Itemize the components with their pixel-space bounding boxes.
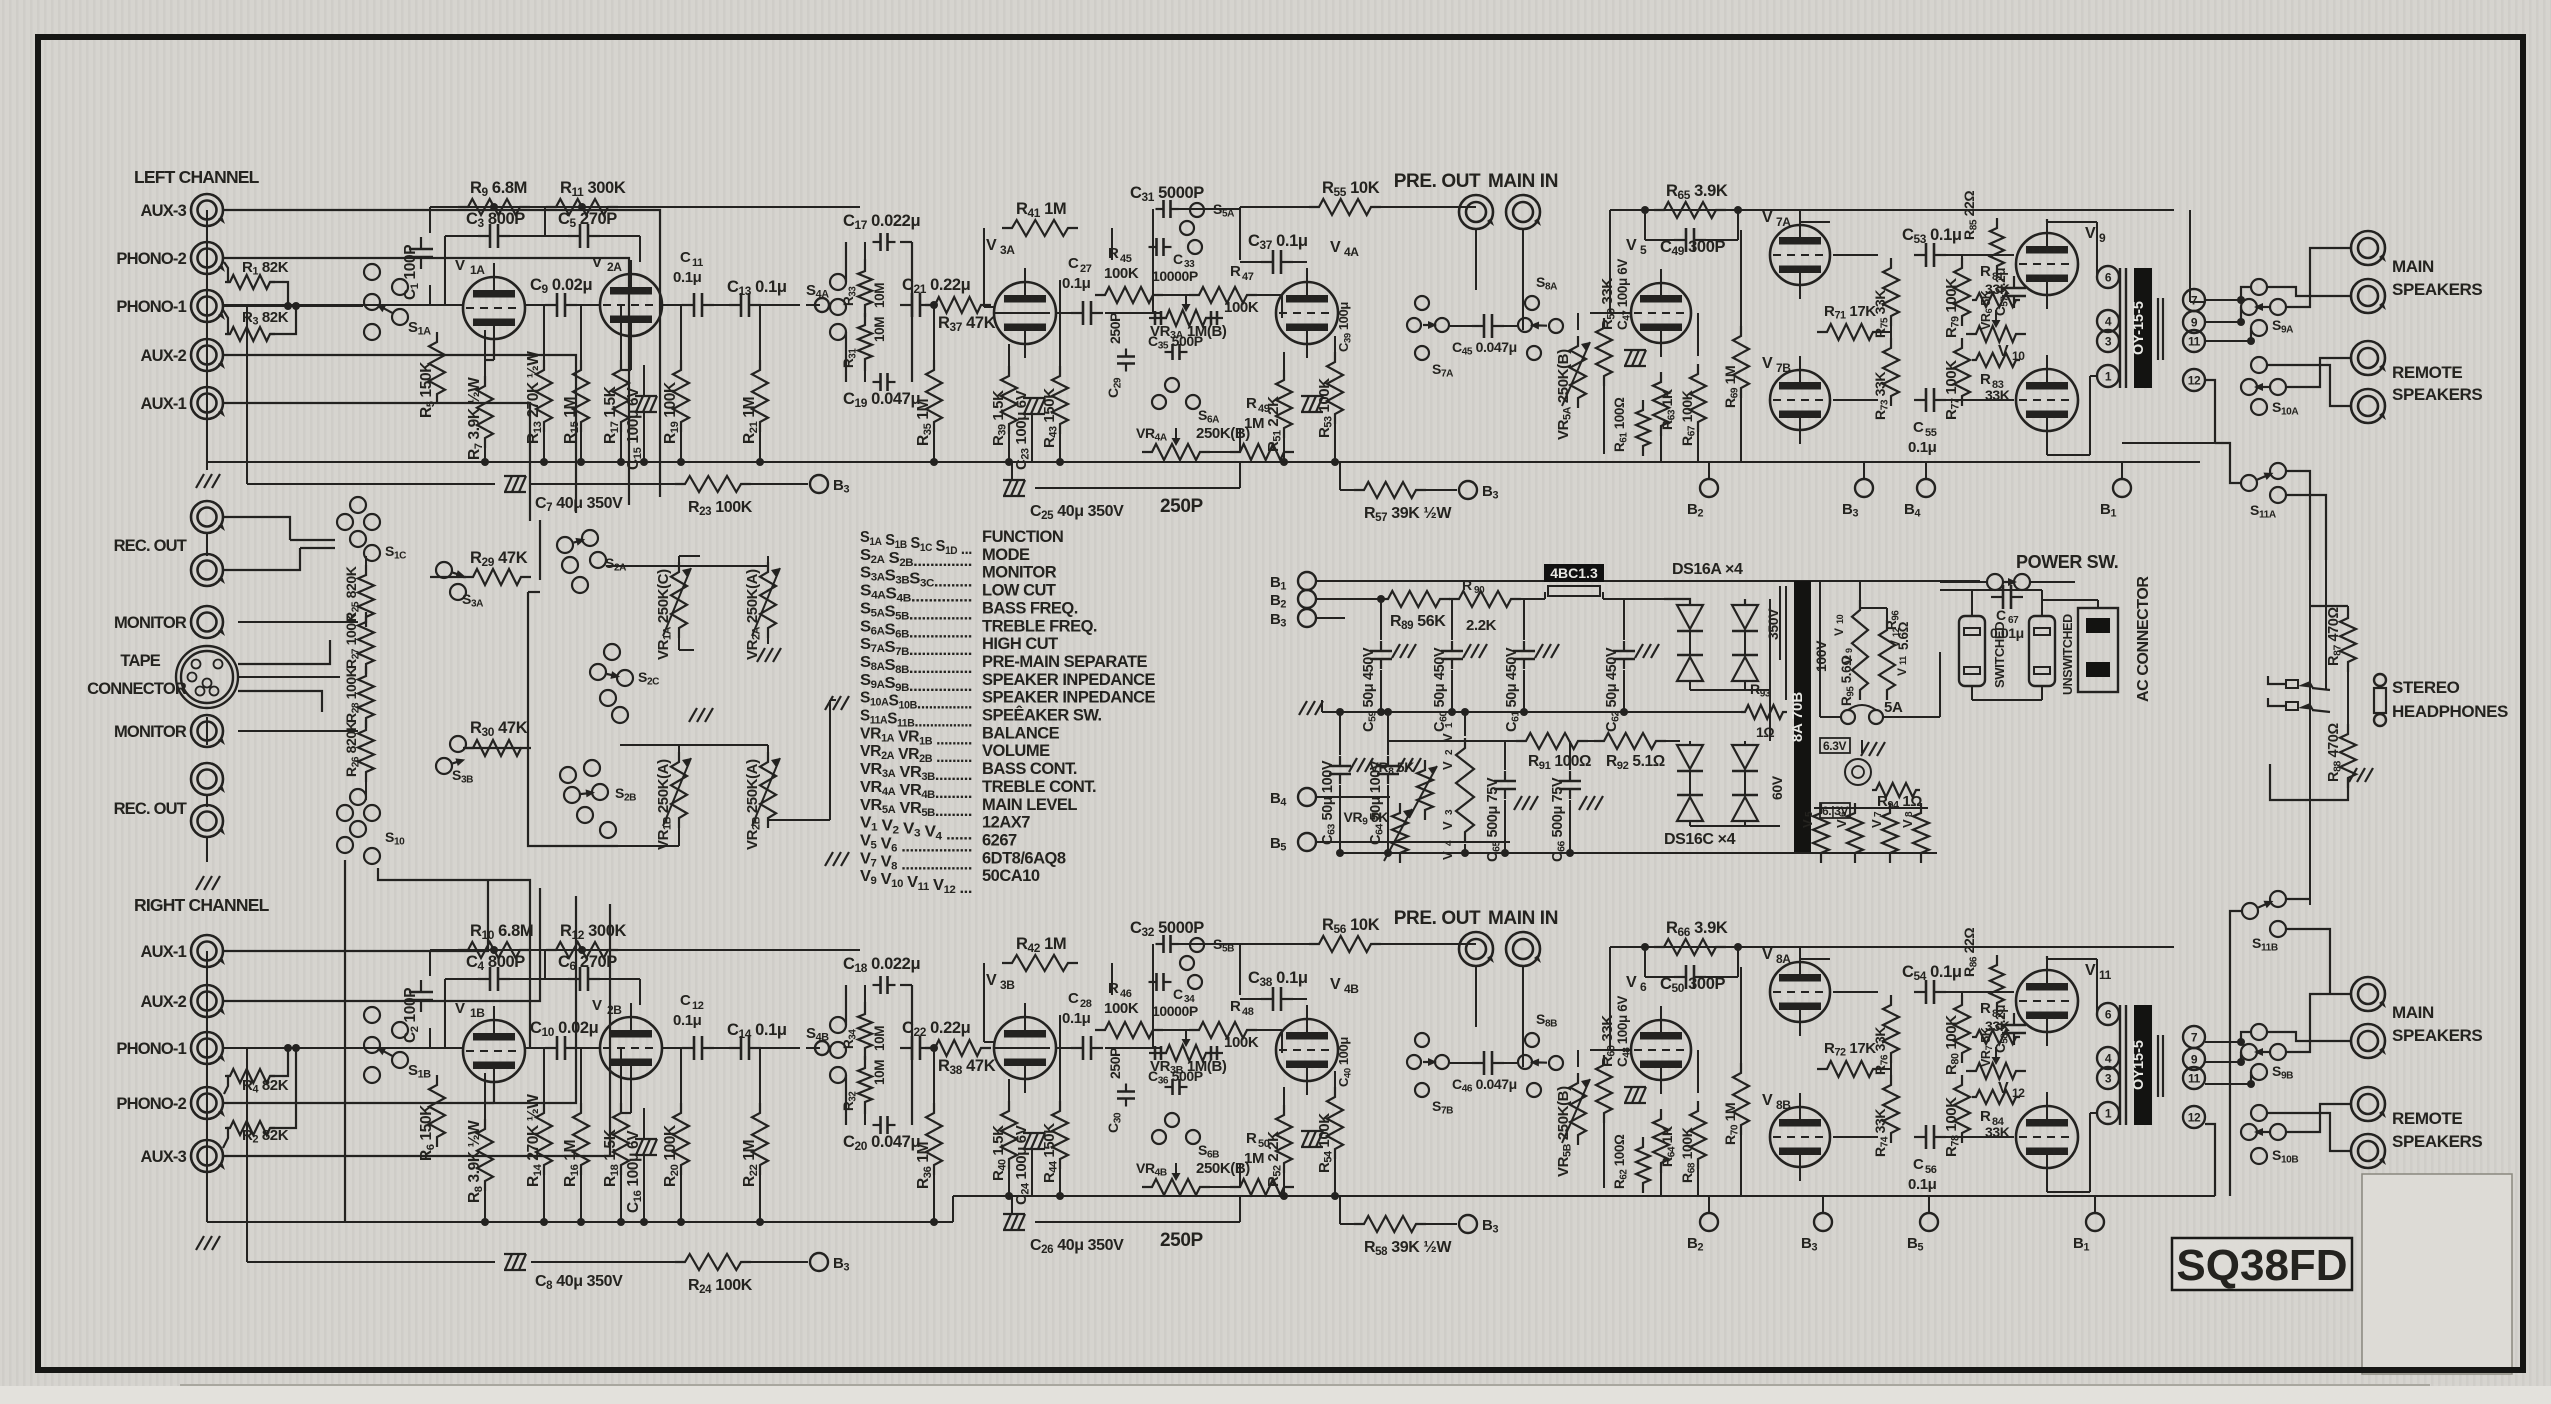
svg-text:100K: 100K [1224, 1034, 1259, 1051]
svg-text:R10 6.8M: R10 6.8M [470, 922, 533, 942]
svg-text:R6 150K: R6 150K [418, 1104, 437, 1161]
svg-text:R15 1M: R15 1M [562, 397, 581, 444]
svg-text:C3 800P: C3 800P [466, 210, 525, 230]
svg-text:C37 0.1μ: C37 0.1μ [1248, 232, 1308, 252]
svg-text:VR1B 250K(A): VR1B 250K(A) [655, 759, 674, 850]
svg-text:R: R [1108, 980, 1119, 997]
svg-text:R71 17K: R71 17K [1824, 303, 1876, 322]
svg-text:V: V [1841, 656, 1855, 664]
svg-text:R64 1K: R64 1K [1659, 1126, 1678, 1167]
svg-text:R73 33K: R73 33K [1872, 372, 1891, 420]
svg-text:C1 100P: C1 100P [402, 245, 421, 300]
svg-text:3: 3 [2105, 1072, 2112, 1086]
svg-text:TAPE: TAPE [120, 652, 160, 670]
svg-text:R79 100K: R79 100K [1943, 278, 1962, 338]
svg-text:PHONO-1: PHONO-1 [116, 1040, 186, 1058]
svg-text:4BC1.3: 4BC1.3 [1550, 565, 1598, 581]
svg-text:V: V [592, 997, 602, 1014]
svg-text:R5 150K: R5 150K [418, 361, 437, 418]
svg-text:10: 10 [2012, 349, 2025, 363]
svg-text:HEADPHONES: HEADPHONES [2392, 702, 2508, 721]
svg-text:250K(B): 250K(B) [1196, 1160, 1250, 1177]
svg-text:3: 3 [2105, 335, 2112, 349]
svg-text:C22 0.22μ: C22 0.22μ [902, 1019, 970, 1039]
svg-text:45: 45 [1120, 253, 1132, 265]
svg-text:12: 12 [1891, 627, 1901, 637]
svg-text:4: 4 [2105, 1052, 2112, 1066]
svg-text:10M: 10M [872, 283, 887, 308]
svg-text:REC. OUT: REC. OUT [114, 537, 187, 555]
svg-text:TREBLE FREQ.: TREBLE FREQ. [982, 617, 1097, 635]
svg-text:R: R [1980, 1000, 1991, 1017]
svg-text:C: C [680, 249, 691, 266]
svg-text:12: 12 [2188, 1111, 2201, 1125]
svg-text:R1 82K: R1 82K [242, 259, 289, 278]
svg-text:BASS FREQ.: BASS FREQ. [982, 599, 1078, 617]
svg-text:R22 1M: R22 1M [741, 1140, 760, 1187]
svg-text:VR1A 250K(C): VR1A 250K(C) [655, 569, 674, 660]
svg-text:0.1μ: 0.1μ [1908, 439, 1937, 456]
svg-text:R: R [1246, 1130, 1257, 1147]
svg-text:8A: 8A [1776, 952, 1791, 966]
svg-text:MAIN: MAIN [2392, 257, 2434, 276]
svg-text:C36 500P: C36 500P [1148, 1068, 1203, 1087]
svg-text:V: V [1626, 974, 1637, 991]
svg-text:V: V [2085, 225, 2096, 242]
svg-text:C9 0.02μ: C9 0.02μ [530, 276, 592, 296]
svg-text:0.1μ: 0.1μ [673, 269, 702, 286]
svg-text:10M: 10M [872, 317, 887, 342]
svg-text:R72 17K: R72 17K [1824, 1040, 1876, 1059]
svg-text:V: V [1834, 819, 1849, 828]
svg-text:6267: 6267 [982, 831, 1017, 849]
svg-text:5A: 5A [1884, 699, 1903, 716]
svg-text:6: 6 [1838, 811, 1849, 817]
svg-text:OY-15-5: OY-15-5 [2131, 301, 2147, 355]
svg-text:MAIN IN: MAIN IN [1488, 171, 1558, 192]
svg-text:UNSWITCHED: UNSWITCHED [2061, 614, 2075, 695]
svg-text:PRE. OUT: PRE. OUT [1394, 171, 1481, 192]
svg-text:C13 0.1μ: C13 0.1μ [727, 278, 787, 298]
svg-text:V: V [1440, 761, 1455, 770]
svg-text:R92 5.1Ω: R92 5.1Ω [1606, 753, 1665, 772]
svg-text:R61 100Ω: R61 100Ω [1612, 397, 1629, 452]
svg-text:R75 33K: R75 33K [1872, 290, 1891, 338]
svg-text:12: 12 [692, 1000, 704, 1012]
svg-text:R16 1M: R16 1M [562, 1140, 581, 1187]
svg-text:9: 9 [2191, 316, 2198, 330]
svg-text:VR2A 250K(A): VR2A 250K(A) [744, 569, 763, 660]
svg-text:10: 10 [1835, 614, 1845, 624]
svg-text:PRE-MAIN SEPARATE: PRE-MAIN SEPARATE [982, 653, 1148, 671]
svg-text:R43 150K: R43 150K [1041, 388, 1060, 448]
svg-text:MAIN IN: MAIN IN [1488, 908, 1558, 929]
svg-text:50CA10: 50CA10 [982, 867, 1040, 885]
svg-text:C53 0.1μ: C53 0.1μ [1902, 226, 1962, 246]
svg-text:1: 1 [2105, 370, 2112, 384]
svg-text:TREBLE CONT.: TREBLE CONT. [982, 778, 1096, 796]
svg-text:PRE. OUT: PRE. OUT [1394, 908, 1481, 929]
svg-text:C: C [1173, 986, 1183, 1002]
svg-text:12: 12 [2012, 1086, 2025, 1100]
svg-text:6.3V: 6.3V [1823, 739, 1846, 753]
svg-text:R: R [1462, 577, 1472, 593]
svg-text:12: 12 [2188, 374, 2201, 388]
svg-text:R: R [1230, 263, 1241, 280]
svg-text:V: V [1998, 343, 2009, 360]
svg-text:28: 28 [1080, 998, 1092, 1010]
svg-text:CONNECTOR: CONNECTOR [87, 680, 187, 698]
svg-text:R87 470Ω: R87 470Ω [2326, 607, 2344, 666]
svg-text:C: C [680, 992, 691, 1009]
svg-text:1M: 1M [1244, 415, 1264, 432]
svg-text:1: 1 [1444, 722, 1455, 728]
svg-text:11: 11 [2099, 968, 2112, 982]
svg-text:1M: 1M [1244, 1150, 1264, 1167]
svg-text:VR5A 250K(B): VR5A 250K(B) [1555, 349, 1574, 440]
svg-text:R11 300K: R11 300K [560, 179, 626, 199]
svg-text:AUX-1: AUX-1 [140, 943, 186, 961]
svg-text:C10 0.02μ: C10 0.02μ [530, 1019, 598, 1039]
svg-text:4B: 4B [1344, 982, 1359, 996]
svg-text:0.1μ: 0.1μ [673, 1012, 702, 1029]
svg-text:R35 1M: R35 1M [915, 399, 934, 446]
svg-text:1Ω: 1Ω [1756, 724, 1774, 740]
svg-text:1B: 1B [470, 1006, 485, 1020]
svg-text:V: V [1762, 355, 1773, 372]
svg-text:V: V [1998, 1080, 2009, 1097]
svg-text:R55 10K: R55 10K [1322, 179, 1380, 199]
svg-text:250P: 250P [1160, 1230, 1204, 1251]
svg-text:7A: 7A [1776, 215, 1791, 229]
svg-text:R23 100K: R23 100K [688, 499, 753, 518]
svg-text:V: V [1762, 209, 1773, 226]
svg-text:R9 6.8M: R9 6.8M [470, 179, 527, 199]
svg-text:7B: 7B [1776, 361, 1791, 375]
svg-text:10M: 10M [872, 1026, 887, 1051]
svg-text:11: 11 [692, 257, 703, 269]
svg-text:R21 1M: R21 1M [741, 397, 760, 444]
svg-text:DS16A ×4: DS16A ×4 [1672, 561, 1743, 578]
svg-text:C: C [1913, 419, 1924, 436]
svg-text:3A: 3A [1000, 243, 1015, 257]
svg-text:LOW CUT: LOW CUT [982, 582, 1056, 600]
svg-text:PHONO-2: PHONO-2 [116, 1095, 186, 1113]
svg-text:10000P: 10000P [1152, 268, 1198, 284]
svg-text:R68 100K: R68 100K [1679, 1127, 1698, 1183]
svg-text:V: V [1800, 819, 1815, 828]
svg-text:VR5B 250K(B): VR5B 250K(B) [1555, 1086, 1574, 1177]
svg-text:C54 0.1μ: C54 0.1μ [1902, 963, 1962, 983]
svg-text:R40 1.5K: R40 1.5K [990, 1125, 1009, 1181]
svg-text:V: V [986, 237, 997, 254]
svg-text:7: 7 [2191, 1031, 2198, 1045]
svg-text:C: C [1913, 1156, 1924, 1173]
svg-text:PHONO-2: PHONO-2 [116, 250, 186, 268]
svg-text:R63 1K: R63 1K [1659, 389, 1678, 430]
svg-text:V: V [2085, 962, 2096, 979]
svg-text:C58 0.2μ: C58 0.2μ [1993, 1005, 2010, 1053]
svg-text:V: V [1888, 640, 1902, 648]
svg-text:FUNCTION: FUNCTION [982, 528, 1063, 546]
svg-text:R77 100K: R77 100K [1943, 360, 1962, 420]
svg-text:R78 100K: R78 100K [1943, 1097, 1962, 1157]
svg-text:C21 0.22μ: C21 0.22μ [902, 276, 970, 296]
svg-text:C5 270P: C5 270P [558, 210, 617, 230]
svg-text:SPEAKERS: SPEAKERS [2392, 1026, 2482, 1045]
svg-text:250K(B): 250K(B) [1196, 425, 1250, 442]
svg-text:V: V [1762, 1092, 1773, 1109]
svg-text:VOLUME: VOLUME [982, 742, 1050, 760]
svg-text:4: 4 [2105, 315, 2112, 329]
svg-text:V: V [1832, 628, 1846, 636]
svg-text:SPEAKERS: SPEAKERS [2392, 280, 2482, 299]
svg-text:REC. OUT: REC. OUT [114, 800, 187, 818]
svg-text:R: R [1230, 998, 1241, 1015]
svg-text:V: V [1895, 668, 1909, 676]
svg-text:2: 2 [1444, 749, 1455, 755]
svg-text:R18 1.5K: R18 1.5K [602, 1128, 621, 1187]
svg-text:V: V [1626, 237, 1637, 254]
svg-text:47: 47 [1242, 271, 1254, 283]
svg-text:R66 3.9K: R66 3.9K [1666, 919, 1728, 939]
svg-text:PHONO-1: PHONO-1 [116, 298, 186, 316]
svg-text:R36 1M: R36 1M [915, 1142, 934, 1189]
svg-text:DS16C ×4: DS16C ×4 [1664, 831, 1736, 848]
svg-text:C: C [1068, 255, 1079, 272]
svg-text:AUX-1: AUX-1 [140, 395, 186, 413]
svg-text:27: 27 [1080, 263, 1092, 275]
svg-text:V: V [455, 1000, 465, 1017]
svg-text:R: R [1980, 263, 1991, 280]
svg-text:R38 47K: R38 47K [938, 1057, 996, 1077]
svg-text:R19 100K: R19 100K [662, 381, 681, 444]
svg-text:250P: 250P [1160, 496, 1204, 517]
svg-text:R: R [1980, 371, 1991, 388]
svg-text:C: C [1068, 990, 1079, 1007]
svg-text:11: 11 [2188, 1072, 2201, 1086]
svg-text:11: 11 [2188, 335, 2201, 349]
svg-text:R76 33K: R76 33K [1872, 1027, 1891, 1075]
svg-text:4A: 4A [1344, 245, 1359, 259]
svg-text:1A: 1A [470, 263, 485, 277]
svg-text:5: 5 [1804, 811, 1815, 817]
svg-text:0.1μ: 0.1μ [1908, 1176, 1937, 1193]
svg-text:6DT8/6AQ8: 6DT8/6AQ8 [982, 849, 1066, 867]
svg-text:C: C [1173, 251, 1183, 267]
svg-text:R3 82K: R3 82K [242, 309, 289, 328]
svg-text:11: 11 [1898, 656, 1908, 665]
svg-text:BASS CONT.: BASS CONT. [982, 760, 1077, 778]
svg-text:V: V [986, 972, 997, 989]
svg-text:AUX-2: AUX-2 [140, 993, 186, 1011]
svg-text:250P: 250P [1107, 1048, 1123, 1079]
svg-text:R65 3.9K: R65 3.9K [1666, 182, 1728, 202]
svg-text:V: V [455, 257, 465, 274]
svg-text:R28 100K: R28 100K [343, 667, 362, 723]
svg-text:6: 6 [2105, 1008, 2112, 1022]
svg-text:6: 6 [2105, 271, 2112, 285]
svg-text:R41 1M: R41 1M [1016, 200, 1066, 220]
svg-text:SPEÊAKER SW.: SPEÊAKER SW. [982, 706, 1102, 725]
svg-text:100K: 100K [1104, 265, 1139, 282]
svg-text:SPEAKER INPEDANCE: SPEAKER INPEDANCE [982, 671, 1156, 689]
svg-text:SWITCHED: SWITCHED [1992, 622, 2007, 688]
svg-text:V: V [1762, 946, 1773, 963]
svg-text:R: R [1246, 395, 1257, 412]
svg-text:C14 0.1μ: C14 0.1μ [727, 1021, 787, 1041]
svg-text:C57 0.2μ: C57 0.2μ [1993, 268, 2010, 316]
svg-text:BALANCE: BALANCE [982, 724, 1060, 742]
svg-text:V: V [1900, 819, 1915, 828]
svg-text:7: 7 [1873, 811, 1884, 817]
svg-text:HIGH CUT: HIGH CUT [982, 635, 1058, 653]
svg-text:10000P: 10000P [1152, 1003, 1198, 1019]
svg-text:C4 800P: C4 800P [466, 953, 525, 973]
svg-text:8: 8 [1904, 811, 1915, 817]
svg-text:7: 7 [2191, 294, 2198, 308]
svg-text:REMOTE: REMOTE [2392, 363, 2462, 382]
svg-text:R44 150K: R44 150K [1041, 1123, 1060, 1183]
svg-text:R56 10K: R56 10K [1322, 916, 1380, 936]
svg-text:R30 47K: R30 47K [470, 719, 528, 739]
svg-text:OY15-5: OY15-5 [2131, 1040, 2147, 1090]
svg-text:MONITOR: MONITOR [982, 564, 1057, 582]
svg-text:8B: 8B [1776, 1098, 1791, 1112]
svg-text:2.2K: 2.2K [1466, 617, 1497, 634]
svg-text:R20 100K: R20 100K [662, 1124, 681, 1187]
svg-text:R91 100Ω: R91 100Ω [1528, 753, 1591, 772]
svg-text:46: 46 [1120, 988, 1132, 1000]
svg-text:R88 470Ω: R88 470Ω [2326, 723, 2344, 782]
svg-text:V: V [1440, 821, 1455, 830]
svg-text:0.1μ: 0.1μ [1062, 1010, 1091, 1027]
svg-text:9: 9 [2191, 1053, 2198, 1067]
svg-text:C: C [1996, 607, 2006, 623]
svg-text:6: 6 [1640, 980, 1647, 994]
svg-text:R62 100Ω: R62 100Ω [1612, 1134, 1629, 1189]
svg-text:90: 90 [1474, 585, 1485, 596]
svg-text:C38 0.1μ: C38 0.1μ [1248, 969, 1308, 989]
svg-text:R42 1M: R42 1M [1016, 935, 1066, 955]
svg-text:STEREO: STEREO [2392, 678, 2460, 697]
svg-text:5: 5 [1640, 243, 1647, 257]
svg-text:SPEAKERS: SPEAKERS [2392, 1132, 2482, 1151]
svg-text:R51 2.2K: R51 2.2K [1265, 396, 1284, 452]
svg-text:10M: 10M [872, 1060, 887, 1085]
svg-text:350V: 350V [1765, 608, 1781, 640]
svg-text:R12 300K: R12 300K [560, 922, 626, 942]
svg-text:3: 3 [1444, 809, 1455, 815]
svg-text:MONITOR: MONITOR [114, 723, 187, 741]
svg-text:R17 1.5K: R17 1.5K [602, 385, 621, 444]
svg-text:MAIN LEVEL: MAIN LEVEL [982, 796, 1077, 814]
svg-text:100K: 100K [1224, 299, 1259, 316]
svg-text:1: 1 [2105, 1107, 2112, 1121]
svg-text:R26 820K: R26 820K [343, 721, 362, 777]
svg-text:8A 70B: 8A 70B [1789, 692, 1806, 742]
svg-text:SQ38FD: SQ38FD [2176, 1241, 2347, 1290]
svg-text:MONITOR: MONITOR [114, 614, 187, 632]
svg-text:4: 4 [1444, 840, 1455, 846]
svg-text:C32 5000P: C32 5000P [1130, 919, 1204, 939]
svg-text:SPEAKER INPEDANCE: SPEAKER INPEDANCE [982, 689, 1156, 707]
svg-text:C35 500P: C35 500P [1148, 333, 1203, 352]
svg-text:9: 9 [1844, 648, 1854, 653]
svg-text:R86 22Ω: R86 22Ω [1961, 928, 1980, 977]
svg-text:9: 9 [2099, 231, 2106, 245]
svg-text:POWER SW.: POWER SW. [2016, 552, 2118, 572]
svg-text:C6 270P: C6 270P [558, 953, 617, 973]
svg-text:48: 48 [1242, 1006, 1254, 1018]
svg-text:R67 100K: R67 100K [1679, 390, 1698, 446]
svg-text:3B: 3B [1000, 978, 1015, 992]
svg-text:R89 56K: R89 56K [1390, 613, 1446, 632]
svg-text:55: 55 [1925, 427, 1937, 439]
svg-text:MODE: MODE [982, 546, 1030, 564]
svg-text:REMOTE: REMOTE [2392, 1109, 2462, 1128]
svg-text:C2 100P: C2 100P [402, 988, 421, 1043]
svg-text:56: 56 [1925, 1164, 1937, 1176]
svg-text:R80 100K: R80 100K [1943, 1015, 1962, 1075]
svg-text:R: R [1980, 1108, 1991, 1125]
svg-text:LEFT CHANNEL: LEFT CHANNEL [134, 167, 260, 187]
svg-text:R29 47K: R29 47K [470, 549, 528, 569]
svg-text:R69 1M: R69 1M [1722, 366, 1741, 408]
svg-text:12AX7: 12AX7 [982, 814, 1030, 832]
svg-text:2B: 2B [607, 1003, 622, 1017]
svg-text:2A: 2A [607, 260, 622, 274]
svg-text:V: V [1330, 239, 1341, 256]
svg-text:R37 47K: R37 47K [938, 314, 996, 334]
svg-text:250P: 250P [1107, 313, 1123, 344]
svg-text:AUX-2: AUX-2 [140, 347, 186, 365]
svg-text:AC CONNECTOR: AC CONNECTOR [2135, 576, 2152, 702]
svg-text:100K: 100K [1104, 1000, 1139, 1017]
svg-text:60V: 60V [1769, 775, 1785, 800]
svg-text:R52 2.2K: R52 2.2K [1265, 1131, 1284, 1187]
svg-text:RIGHT CHANNEL: RIGHT CHANNEL [134, 895, 270, 915]
svg-text:R39 1.5K: R39 1.5K [990, 390, 1009, 446]
svg-text:R74 33K: R74 33K [1872, 1109, 1891, 1157]
svg-text:V: V [1869, 819, 1884, 828]
svg-text:VR2B 250K(A): VR2B 250K(A) [744, 759, 763, 850]
svg-text:R85 22Ω: R85 22Ω [1961, 191, 1980, 240]
svg-text:R24 100K: R24 100K [688, 1277, 753, 1296]
svg-text:AUX-3: AUX-3 [140, 202, 186, 220]
svg-text:V: V [592, 254, 602, 271]
svg-text:0.1μ: 0.1μ [1062, 275, 1091, 292]
svg-text:AUX-3: AUX-3 [140, 1148, 186, 1166]
svg-text:V: V [1330, 976, 1341, 993]
svg-text:MAIN: MAIN [2392, 1003, 2434, 1022]
svg-text:SPEAKERS: SPEAKERS [2392, 385, 2482, 404]
svg-text:R: R [1108, 245, 1119, 262]
svg-text:R70 1M: R70 1M [1722, 1103, 1741, 1145]
svg-text:C31 5000P: C31 5000P [1130, 184, 1204, 204]
